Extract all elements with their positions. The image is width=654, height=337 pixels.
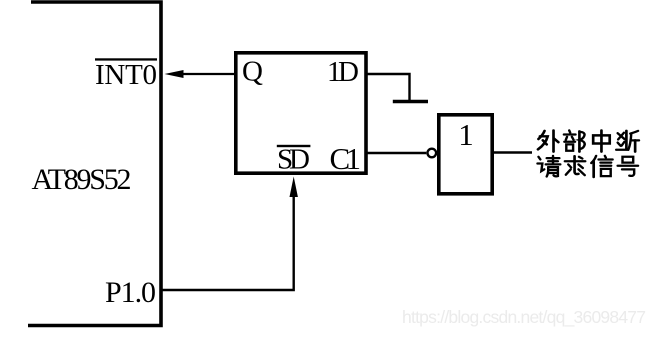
svg-text:https://blog.csdn.net/qq_36098: https://blog.csdn.net/qq_36098477 [402, 307, 646, 328]
INT0 overline [95, 58, 157, 60]
ground [393, 100, 428, 104]
svg-text:P1.0: P1.0 [105, 276, 156, 309]
svg-text:C1: C1 [330, 141, 362, 176]
net label: external interrupt request signal line 1 (外部中断) [538, 130, 639, 151]
wire inverter output [492, 151, 532, 153]
svg-text:SD: SD [277, 144, 310, 176]
MCU AT89S52 box (open left) [28, 2, 161, 326]
net label line 2 (请求信号) [537, 156, 638, 177]
wire Q to INT0 [183, 73, 236, 75]
wire P1.0 to SD [161, 195, 294, 290]
flip-flop U1 box [236, 53, 366, 173]
arrowhead into INT0 [165, 70, 184, 78]
svg-text:INT0: INT0 [95, 59, 157, 91]
inverter U2 box [439, 115, 492, 194]
svg-text:AT89S52: AT89S52 [32, 163, 132, 196]
inverter bubble [428, 149, 437, 158]
wire C1 to inverter bubble [366, 152, 426, 154]
arrowhead into SD [290, 177, 298, 198]
svg-text:Q: Q [242, 56, 263, 88]
svg-text:1: 1 [458, 117, 474, 152]
svg-text:1D: 1D [327, 56, 359, 88]
SD overline [277, 145, 311, 147]
wire 1D to ground [366, 74, 410, 100]
